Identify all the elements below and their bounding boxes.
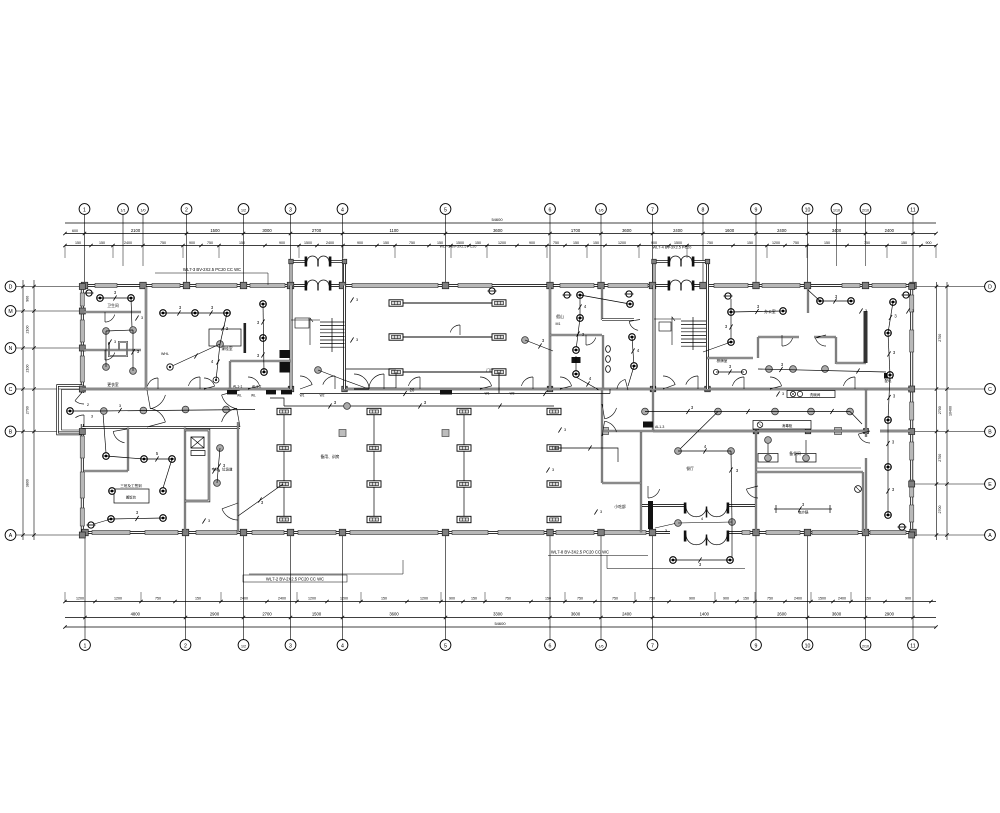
- svg-text:3800: 3800: [26, 479, 30, 487]
- staircase 1: [320, 321, 345, 323]
- svg-text:5: 5: [444, 207, 447, 213]
- svg-text:3600: 3600: [389, 612, 399, 617]
- svg-text:900: 900: [189, 241, 195, 245]
- svg-text:1/0: 1/0: [141, 208, 146, 212]
- svg-text:N: N: [9, 346, 13, 352]
- svg-text:750: 750: [793, 241, 799, 245]
- svg-text:2100: 2100: [26, 326, 30, 334]
- svg-text:3: 3: [865, 309, 867, 313]
- svg-text:900: 900: [723, 596, 729, 600]
- svg-text:3: 3: [289, 643, 292, 649]
- corridor double door arcs: [150, 395, 165, 409]
- interior door swing D15 at (127,429): [113, 431, 124, 442]
- svg-text:54600: 54600: [491, 217, 503, 222]
- svg-text:1/10: 1/10: [833, 208, 840, 212]
- interior door swing D22 at (460,335): [450, 325, 460, 332]
- svg-text:3: 3: [356, 298, 358, 302]
- svg-text:洗碗间: 洗碗间: [810, 392, 821, 397]
- stair shaft lower doors: [300, 376, 312, 385]
- svg-text:WL7-3 BV-2X2.5 PC20 CC WC: WL7-3 BV-2X2.5 PC20 CC WC: [183, 267, 241, 272]
- left axis letter circles and dimension lines: [5, 281, 16, 292]
- left side entrance bump: [58, 386, 83, 435]
- svg-text:WL7-2 BV-2X2.5 PC20 CC WC: WL7-2 BV-2X2.5 PC20 CC WC: [266, 577, 324, 582]
- svg-text:2700: 2700: [938, 334, 942, 342]
- svg-text:5: 5: [444, 643, 447, 649]
- svg-text:2400: 2400: [838, 596, 846, 600]
- interior door swing D12 at (105,350): [105, 353, 115, 360]
- svg-text:AL1-3: AL1-3: [655, 425, 664, 429]
- svg-text:150: 150: [99, 241, 105, 245]
- interior door swing D16 at (238,503): [222, 509, 238, 520]
- svg-text:电炒锅: 电炒锅: [798, 510, 809, 515]
- svg-text:3: 3: [218, 469, 220, 473]
- svg-text:WHL: WHL: [161, 352, 169, 356]
- svg-text:A: A: [9, 533, 13, 539]
- svg-text:750: 750: [707, 241, 713, 245]
- svg-text:1100: 1100: [389, 228, 399, 233]
- svg-text:750: 750: [553, 241, 559, 245]
- interior door swing D20 at (782,335): [782, 338, 793, 346]
- interior door swing D6 at (560,389): [560, 377, 572, 386]
- svg-text:D: D: [988, 285, 992, 291]
- hall junction wiring: [315, 367, 322, 374]
- svg-text:750: 750: [649, 596, 655, 600]
- svg-text:三班及工签到: 三班及工签到: [120, 483, 142, 488]
- interior door swing D9 at (770,389): [770, 377, 782, 386]
- svg-text:2/10: 2/10: [862, 208, 869, 212]
- svg-text:3: 3: [141, 316, 143, 320]
- svg-text:3: 3: [912, 309, 914, 313]
- svg-text:900: 900: [529, 241, 535, 245]
- svg-text:3: 3: [564, 428, 566, 432]
- svg-text:750: 750: [577, 596, 583, 600]
- svg-text:54600: 54600: [494, 621, 506, 626]
- svg-text:B: B: [9, 430, 13, 436]
- svg-text:W1: W1: [485, 392, 490, 396]
- dining hall devices: [675, 448, 682, 455]
- svg-text:棕牌室: 棕牌室: [717, 358, 728, 363]
- interior door swing D13 at (158,389): [147, 378, 158, 386]
- bottom-right entrance double doors: [641, 504, 686, 507]
- svg-text:2400: 2400: [622, 612, 632, 617]
- svg-text:2700: 2700: [938, 454, 942, 462]
- svg-text:3600: 3600: [493, 228, 503, 233]
- structural columns: [81, 282, 88, 289]
- svg-text:2400: 2400: [124, 241, 132, 245]
- svg-text:900: 900: [26, 296, 30, 302]
- svg-text:餐厅: 餐厅: [686, 466, 694, 471]
- svg-text:3: 3: [600, 510, 602, 514]
- svg-text:150: 150: [383, 241, 389, 245]
- svg-text:9: 9: [755, 643, 758, 649]
- svg-text:2700: 2700: [262, 612, 272, 617]
- bottom grid axis circles and dimension band: [80, 640, 91, 651]
- svg-text:3600: 3600: [832, 612, 842, 617]
- svg-text:1200: 1200: [420, 596, 428, 600]
- svg-text:750: 750: [612, 596, 618, 600]
- svg-text:3: 3: [552, 468, 554, 472]
- svg-text:WL: WL: [237, 394, 242, 398]
- svg-text:AL1-1: AL1-1: [233, 385, 242, 389]
- interior door swing D8 at (744,389): [732, 377, 744, 386]
- svg-text:2600: 2600: [777, 612, 787, 617]
- svg-text:3: 3: [356, 338, 358, 342]
- svg-text:M1: M1: [556, 322, 561, 326]
- svg-text:2400: 2400: [777, 228, 787, 233]
- svg-text:1200: 1200: [76, 596, 84, 600]
- svg-text:900: 900: [357, 241, 363, 245]
- svg-text:1500: 1500: [674, 241, 682, 245]
- svg-text:1: 1: [84, 643, 87, 649]
- svg-text:150: 150: [593, 241, 599, 245]
- svg-text:1200: 1200: [308, 596, 316, 600]
- svg-text:M: M: [8, 309, 12, 315]
- svg-text:150: 150: [75, 241, 81, 245]
- svg-text:8: 8: [702, 207, 705, 213]
- svg-text:WL7-4 BV-3X2.5 PC20: WL7-4 BV-3X2.5 PC20: [653, 246, 692, 250]
- svg-text:900: 900: [279, 241, 285, 245]
- window hatches on outer walls: [95, 283, 117, 287]
- svg-text:C: C: [9, 387, 13, 393]
- svg-text:WL7-5 BV-3X2.5 PC20: WL7-5 BV-3X2.5 PC20: [440, 245, 477, 249]
- corridor feeder wire: [300, 393, 610, 395]
- svg-text:750: 750: [505, 596, 511, 600]
- svg-text:1500: 1500: [304, 241, 312, 245]
- svg-text:10400: 10400: [949, 406, 953, 416]
- svg-text:2400: 2400: [673, 228, 683, 233]
- svg-text:150: 150: [747, 241, 753, 245]
- svg-text:消毒柜: 消毒柜: [782, 423, 793, 428]
- interior door swing D21 at (826,335): [815, 338, 826, 346]
- svg-text:7: 7: [651, 643, 654, 649]
- outer building walls: [82, 284, 307, 287]
- svg-text:750: 750: [155, 596, 161, 600]
- svg-text:1/1: 1/1: [121, 208, 126, 212]
- top grid axis circles and dimension band: [79, 204, 90, 215]
- top-right rooms lamps: [724, 293, 733, 299]
- svg-text:150: 150: [865, 596, 871, 600]
- lower hall socket columns and wiring: [283, 412, 285, 520]
- svg-text:WL7-8 BV-3X2.5 PC20 CC WC: WL7-8 BV-3X2.5 PC20 CC WC: [551, 550, 609, 555]
- classroom fixtures: [160, 310, 167, 317]
- svg-text:20: 20: [410, 388, 415, 393]
- svg-text:2100: 2100: [26, 365, 30, 373]
- svg-text:4800: 4800: [131, 612, 141, 617]
- svg-text:1/6: 1/6: [599, 644, 604, 648]
- svg-text:3: 3: [208, 519, 210, 523]
- service rooms near elevator: [217, 445, 224, 452]
- svg-text:D: D: [9, 285, 13, 291]
- svg-text:备餐间: 备餐间: [789, 451, 801, 456]
- right room lamp column: [890, 299, 897, 306]
- interior door swing D2 at (248,389): [248, 377, 260, 386]
- kitchen fixtures: [787, 391, 835, 398]
- svg-text:2700: 2700: [26, 406, 30, 414]
- svg-text:2900: 2900: [885, 612, 895, 617]
- svg-text:3600: 3600: [571, 612, 581, 617]
- svg-text:1500: 1500: [312, 612, 322, 617]
- svg-text:3300: 3300: [493, 612, 503, 617]
- svg-text:W1: W1: [300, 394, 305, 398]
- corridor luminaire chain left: [100, 408, 107, 415]
- svg-text:2700: 2700: [938, 506, 942, 514]
- svg-text:1/2: 1/2: [241, 644, 246, 648]
- svg-text:900: 900: [926, 241, 932, 245]
- svg-text:1200: 1200: [772, 241, 780, 245]
- svg-text:电梯、垃圾道: 电梯、垃圾道: [212, 467, 233, 472]
- interior door swing D23 at (586,335): [586, 338, 596, 345]
- distribution panels: [266, 390, 276, 395]
- svg-text:门厅: 门厅: [486, 368, 494, 373]
- svg-text:2400: 2400: [278, 596, 286, 600]
- svg-text:600: 600: [72, 229, 78, 233]
- svg-text:1/6: 1/6: [599, 208, 604, 212]
- svg-text:900: 900: [651, 241, 657, 245]
- lower-left meeting room: [103, 453, 110, 460]
- svg-text:2/10: 2/10: [862, 644, 869, 648]
- svg-text:6: 6: [549, 643, 552, 649]
- interior door swing D4 at (480,389): [480, 377, 492, 386]
- svg-text:WL: WL: [251, 394, 256, 398]
- svg-text:150: 150: [195, 596, 201, 600]
- svg-text:2700: 2700: [312, 228, 322, 233]
- svg-text:750: 750: [160, 241, 166, 245]
- svg-text:150: 150: [824, 241, 830, 245]
- svg-text:2400: 2400: [240, 596, 248, 600]
- entrance vestibule 1 with double doors: [290, 262, 293, 286]
- svg-text:1700: 1700: [571, 228, 581, 233]
- svg-text:AL1-2: AL1-2: [252, 385, 261, 389]
- svg-text:假山: 假山: [556, 314, 564, 319]
- entrance vestibule 2 with double doors: [653, 262, 656, 286]
- svg-text:B: B: [988, 430, 992, 436]
- staircase 2: [681, 320, 706, 322]
- svg-text:3: 3: [289, 207, 292, 213]
- interior door swing D11 at (105,312): [105, 315, 115, 322]
- svg-text:3: 3: [114, 340, 116, 344]
- left block ceiling lamps and wiring: [85, 290, 94, 296]
- svg-text:150: 150: [573, 241, 579, 245]
- svg-text:2100: 2100: [131, 228, 141, 233]
- svg-text:备用、训房: 备用、训房: [321, 454, 340, 459]
- svg-text:150: 150: [239, 241, 245, 245]
- interior door swing D7 at (628,390): [617, 379, 625, 389]
- svg-text:9: 9: [755, 207, 758, 213]
- svg-text:配电: 配电: [885, 378, 892, 383]
- interior door swing D5 at (533,389): [521, 377, 533, 386]
- svg-text:2700: 2700: [938, 406, 942, 414]
- svg-text:150: 150: [901, 241, 907, 245]
- svg-text:2900: 2900: [210, 612, 220, 617]
- svg-text:900: 900: [449, 596, 455, 600]
- svg-text:1400: 1400: [700, 612, 710, 617]
- interior door swing D14 at (204,389): [204, 378, 215, 386]
- svg-text:3600: 3600: [622, 228, 632, 233]
- svg-text:1500: 1500: [818, 596, 826, 600]
- svg-text:2400: 2400: [885, 228, 895, 233]
- svg-text:W2: W2: [510, 392, 515, 396]
- svg-text:搬饭台: 搬饭台: [126, 495, 137, 500]
- svg-text:900: 900: [689, 596, 695, 600]
- svg-text:150: 150: [381, 596, 387, 600]
- svg-text:4: 4: [341, 643, 344, 649]
- svg-text:2: 2: [184, 643, 187, 649]
- interior door swing D1 at (200,389): [188, 377, 200, 386]
- svg-text:1200: 1200: [114, 596, 122, 600]
- svg-text:1200: 1200: [618, 241, 626, 245]
- svg-text:750: 750: [864, 241, 870, 245]
- hall mid lamp: [488, 288, 497, 294]
- svg-text:2: 2: [185, 207, 188, 213]
- svg-text:4: 4: [341, 207, 344, 213]
- svg-text:10: 10: [805, 207, 811, 213]
- svg-text:1/2: 1/2: [241, 208, 246, 212]
- svg-text:10: 10: [805, 643, 811, 649]
- rooms 6-7 lamps: [563, 292, 572, 298]
- svg-text:3: 3: [782, 392, 784, 396]
- svg-text:750: 750: [409, 241, 415, 245]
- svg-text:W2: W2: [320, 394, 325, 398]
- svg-text:11: 11: [910, 643, 915, 649]
- svg-text:150: 150: [471, 596, 477, 600]
- svg-text:1500: 1500: [210, 228, 220, 233]
- interior door swing D18 at (758,486): [746, 489, 758, 498]
- svg-text:11: 11: [910, 207, 915, 213]
- svg-text:办公室: 办公室: [764, 309, 776, 314]
- svg-text:2400: 2400: [794, 596, 802, 600]
- svg-text:7: 7: [651, 207, 654, 213]
- svg-text:1200: 1200: [498, 241, 506, 245]
- svg-text:6: 6: [549, 207, 552, 213]
- svg-text:1600: 1600: [725, 228, 735, 233]
- svg-text:150: 150: [743, 596, 749, 600]
- interior partition walls: [82, 388, 291, 390]
- interior door swing D17 at (648,486): [648, 489, 660, 498]
- svg-text:3000: 3000: [262, 228, 272, 233]
- svg-text:2400: 2400: [326, 241, 334, 245]
- right axis letter circles and dimension lines: [985, 281, 996, 292]
- svg-text:750: 750: [207, 241, 213, 245]
- svg-text:1200: 1200: [340, 596, 348, 600]
- svg-text:1: 1: [83, 207, 86, 213]
- wire section marks: [135, 315, 138, 320]
- svg-text:150: 150: [545, 596, 551, 600]
- interior door swing D19 at (870,431): [858, 434, 870, 443]
- interior door swing D10 at (855,389): [843, 377, 855, 386]
- svg-text:小吃部: 小吃部: [614, 504, 626, 509]
- svg-text:900: 900: [905, 596, 911, 600]
- svg-text:课桂室: 课桂室: [221, 346, 233, 351]
- svg-text:E: E: [988, 482, 992, 488]
- svg-text:卫生间: 卫生间: [107, 303, 119, 308]
- svg-text:750: 750: [767, 596, 773, 600]
- svg-text:A: A: [988, 533, 992, 539]
- svg-text:C: C: [988, 387, 992, 393]
- svg-text:3400: 3400: [832, 228, 842, 233]
- interior door swing D3 at (420,389): [408, 377, 420, 386]
- upper hall work benches with sockets: [396, 302, 499, 304]
- svg-text:更衣室: 更衣室: [107, 382, 119, 387]
